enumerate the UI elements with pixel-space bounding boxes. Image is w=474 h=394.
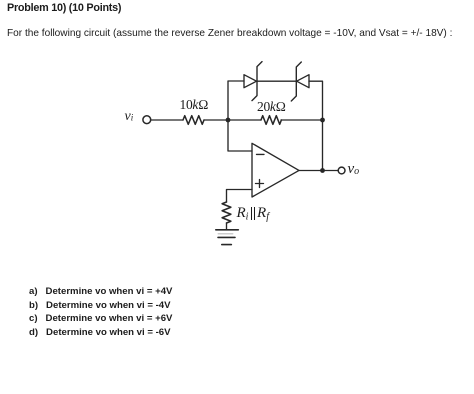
zener diode D2 triangle (297, 75, 309, 88)
op-amp plus sign (256, 180, 264, 188)
question a (29, 286, 172, 297)
question d (29, 327, 171, 338)
wire between zeners (257, 80, 296, 82)
label Ri parallel Rf (237, 206, 269, 223)
wire R2 to node B (281, 119, 323, 121)
zener diode D1 triangle (244, 75, 257, 88)
resistor R1 10k zigzag (183, 116, 204, 125)
zener diode D2 cathode bar (291, 62, 301, 101)
wire node A up to zener branch (228, 81, 244, 120)
wire R1 to node A (204, 119, 261, 121)
title line (7, 2, 121, 14)
output terminal vo (338, 167, 345, 174)
label 20kOhm (257, 100, 286, 114)
op-amp minus sign (257, 153, 265, 155)
intro line (7, 28, 452, 39)
wire node A to inverting input (228, 120, 252, 151)
zener diode D1 cathode bar (252, 62, 262, 101)
label 10kOhm (180, 98, 209, 112)
wire input to R1 (151, 119, 184, 121)
output node junction dot (320, 168, 325, 173)
op-amp U1 triangle (252, 143, 299, 197)
wire noninverting input (227, 190, 253, 203)
input terminal vi (143, 116, 151, 124)
question b (29, 300, 171, 311)
wire op-amp output to terminal (299, 170, 338, 172)
question c (29, 313, 172, 324)
node A junction dot (226, 118, 231, 123)
resistor Ri||Rf vertical zigzag (222, 202, 231, 223)
resistor R2 20k zigzag (261, 116, 281, 125)
label vi (125, 110, 134, 124)
node B junction dot (320, 118, 325, 123)
ground (216, 229, 239, 231)
wire zener to right branch, down to output (309, 81, 323, 170)
wire resistor to ground (226, 223, 228, 230)
label vo (348, 162, 360, 177)
